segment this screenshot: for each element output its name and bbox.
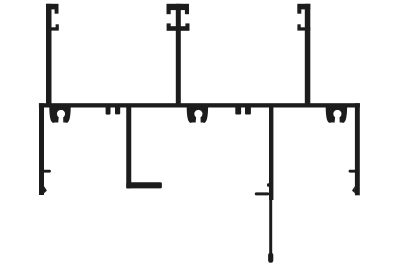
middle stem end bulb <box>268 253 273 263</box>
gasket tooth 2 <box>115 106 120 114</box>
inner L-wall foot <box>126 182 162 188</box>
horizontal band (main transom body) <box>39 103 360 107</box>
right wall barb <box>352 186 355 193</box>
gasket tooth 3 <box>235 106 241 115</box>
post P3 top-arm down-hook <box>297 9 301 14</box>
screw-port omega 2 bottom gap <box>196 115 201 124</box>
screw-port omega 3 hole <box>333 110 341 118</box>
right outer wall <box>355 103 360 195</box>
post P1 stem <box>46 4 52 106</box>
post P1 lower-arm up-hook <box>56 24 59 28</box>
gasket tooth 4 <box>245 106 251 115</box>
post P1 top arm <box>46 4 59 10</box>
screw-port omega 2 hole <box>194 110 202 118</box>
post P1 top-arm down-hook <box>55 9 59 14</box>
screw-port omega 2 body <box>187 107 208 123</box>
post P2 stem <box>176 4 181 106</box>
middle stem left nub <box>267 183 270 187</box>
post P3 lower arm <box>297 27 310 30</box>
left wall barb <box>44 186 47 193</box>
right wall tick <box>349 170 357 173</box>
post P1 lower arm <box>46 27 59 30</box>
inner L-wall vertical <box>126 105 131 188</box>
screw-port omega 1 hole <box>57 110 65 118</box>
post P2 bar right up-hook <box>185 23 189 26</box>
middle stem tick <box>255 192 269 195</box>
screw-port omega 3 bottom gap <box>335 115 340 124</box>
post P3 top arm <box>297 4 310 10</box>
post P2 cap right down-hook <box>185 10 189 14</box>
post P2 lower bar <box>167 26 190 31</box>
gasket tooth 1 <box>106 106 111 115</box>
post P3 stem <box>305 4 311 106</box>
middle drip stem upper <box>269 105 273 200</box>
post P2 top cap <box>167 4 190 10</box>
left wall tick <box>43 170 51 173</box>
screw-port omega 1 body <box>49 107 70 123</box>
screw-port omega 1 bottom gap <box>58 115 63 124</box>
post P2 bar left up-hook <box>167 23 171 26</box>
left outer wall <box>39 103 44 195</box>
post P2 cap left down-hook <box>167 10 171 14</box>
post P3 lower-arm up-hook <box>297 24 300 28</box>
screw-port omega 3 body <box>326 107 347 123</box>
middle drip stem lower <box>269 198 272 254</box>
